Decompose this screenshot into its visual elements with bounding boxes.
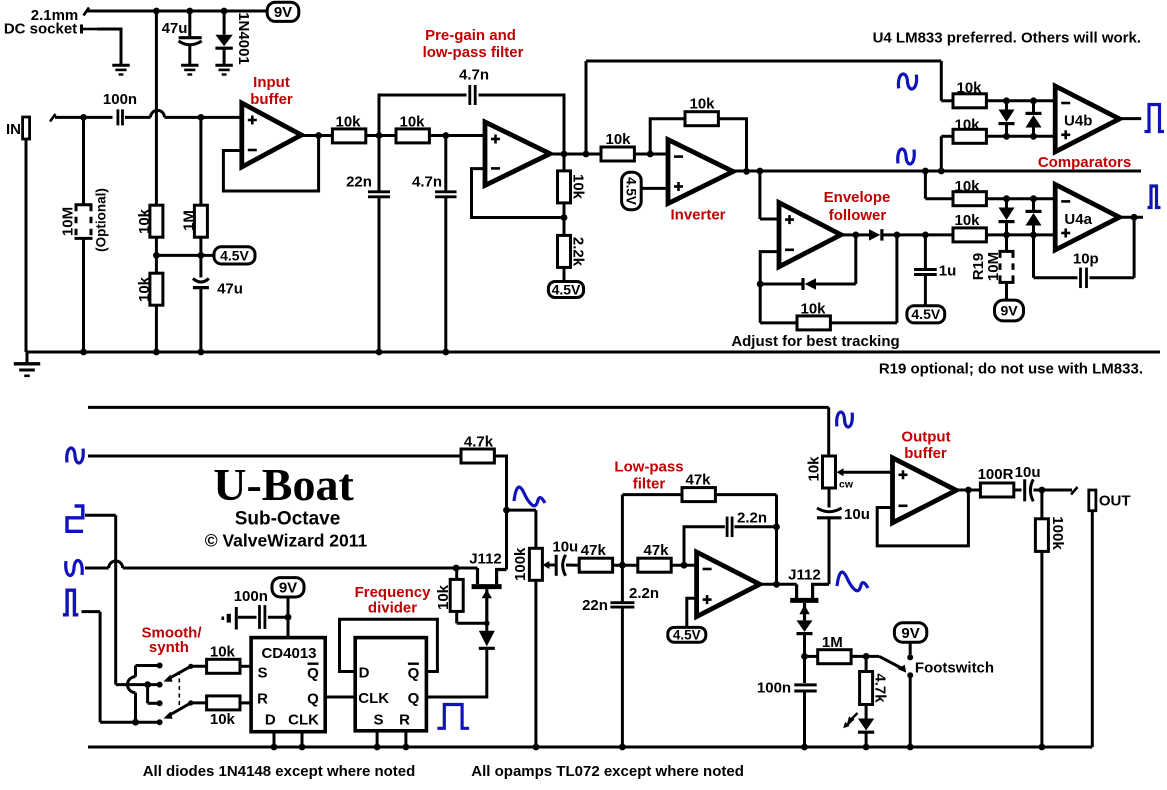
resistor 10k (U4a non-inverting input) [953,228,986,242]
diode (envelope feedback) [760,283,803,286]
feedback network wire (pre-gain) [472,169,565,218]
IC CD4013 (flip-flop 1) [251,638,325,732]
svg-text:CD4013: CD4013 [261,645,316,662]
distorted sine symbol (sub-octave) [514,487,545,506]
svg-text:10k: 10k [800,300,826,317]
CD4013-1 ground legs [273,732,276,747]
svg-text:cw: cw [839,478,854,490]
switch Smooth/synth (lower pole) [157,700,163,706]
svg-text:filter: filter [633,475,666,492]
sine symbol (comparator lower input) [898,149,915,164]
bias label 4.5V (inverter) [622,172,642,209]
wire output [956,489,980,492]
wire pulse to upper switch throw (with hop) [136,664,160,667]
resistor 1M (gate bleed) [805,655,818,658]
op-amp U5a low-pass filter [697,552,760,617]
svg-text:Q: Q [307,691,319,708]
svg-text:R: R [257,691,268,708]
capacitor 4.7n (shunt) [444,136,447,193]
9V supply rail [86,10,268,13]
capacitor 100n (mute) [794,683,816,686]
svg-text:OUT: OUT [1099,492,1131,509]
clamp diode pair (U4a) [1005,199,1008,209]
resistor 10M optional (dashed) [82,117,85,204]
svg-text:100n: 100n [234,588,268,605]
svg-text:follower: follower [829,207,887,224]
op-amp U4a comparator [1055,184,1119,250]
svg-text:R19 optional; do not use with: R19 optional; do not use with LM833. [879,360,1143,377]
resistor 10k (R input) [191,701,207,704]
sine rail (waveform 3) [66,561,83,576]
svg-text:S: S [373,712,383,729]
svg-text:10k: 10k [569,174,586,200]
svg-text:low-pass filter: low-pass filter [423,44,524,61]
svg-text:10k: 10k [136,208,153,234]
capacitor 47u (bias) [199,255,202,277]
svg-text:10k: 10k [954,178,980,195]
svg-text:47u: 47u [217,280,243,297]
wire square signal to switch [116,683,160,686]
op-amp U4b comparator [1055,86,1119,152]
svg-text:Envelope: Envelope [824,189,891,206]
svg-text:10k: 10k [335,113,361,130]
svg-text:4.7k: 4.7k [464,433,494,450]
svg-text:4.5V: 4.5V [220,247,249,263]
svg-text:© ValveWizard 2011: © ValveWizard 2011 [205,531,368,551]
LED indicator [865,705,868,719]
svg-text:100k: 100k [512,547,529,581]
svg-text:1u: 1u [939,262,957,279]
svg-text:Output: Output [901,428,950,445]
footswitch [879,656,904,669]
bias label 4.5V (divider) [214,247,255,264]
svg-text:J112: J112 [469,550,502,567]
svg-text:DC socket: DC socket [4,20,77,37]
svg-text:9V: 9V [279,580,297,597]
svg-text:47k: 47k [581,542,607,559]
svg-text:Q: Q [408,665,420,682]
wire hop over supply line [151,110,165,117]
wire inverter output rail [733,170,1141,173]
svg-text:4.5V: 4.5V [911,306,940,322]
svg-text:1M: 1M [822,634,843,651]
svg-text:All opamps TL072 except where: All opamps TL072 except where noted [471,763,744,780]
op-amp U2a inverter [668,140,733,204]
svg-text:2.2n: 2.2n [737,509,767,526]
resistor 47k (LPF 2) [638,558,671,572]
svg-text:Adjust for best tracking: Adjust for best tracking [731,333,899,350]
resistor 4.7k (LED) [865,656,868,671]
svg-text:R: R [399,712,410,729]
svg-text:Input: Input [253,74,290,91]
CD4013-2 ground legs [376,731,379,747]
resistor 10k (inverter input) [601,147,634,161]
svg-text:Sub-Octave: Sub-Octave [235,509,341,530]
svg-text:Q: Q [307,665,319,682]
resistor 1M (bias feed) [199,117,202,205]
svg-text:U-Boat: U-Boat [213,459,354,510]
svg-text:Q: Q [408,690,420,707]
svg-text:4.7n: 4.7n [459,66,489,83]
diode (envelope output) [841,233,869,236]
svg-text:10k: 10k [954,212,980,229]
svg-text:10k: 10k [210,711,236,728]
wire DC socket to ground [97,29,121,65]
capacitor 10u (blend wiper) [555,555,558,576]
svg-text:100k: 100k [1049,516,1066,550]
svg-text:9V: 9V [901,625,919,642]
resistor 100R (output) [980,483,1013,497]
square signal drop wire [85,514,116,517]
junction dots on 9V rail [153,8,160,15]
svg-text:4.7k: 4.7k [871,673,888,703]
svg-text:IN: IN [6,121,21,138]
supply divider wire [155,11,158,205]
distorted sine symbol (J112 out) [837,572,868,591]
svg-text:U4 LM833 preferred. Others wil: U4 LM833 preferred. Others will work. [873,29,1141,46]
svg-text:47k: 47k [685,471,711,488]
svg-text:Inverter: Inverter [670,206,725,223]
svg-text:22n: 22n [346,173,372,190]
ground (100n sideways) [235,607,238,630]
svg-text:100R: 100R [978,466,1014,483]
square symbol (waveform 2) [67,506,83,531]
capacitor 47u (supply) [188,11,191,36]
wire LPF output [760,583,797,586]
op-amp U1b pre-gain [485,122,550,185]
sine rail to 4.7k [88,455,461,458]
pulse symbol (waveform 4) [63,590,79,615]
power label 9V (CD4013) [272,578,304,597]
sine symbol (pot top) [837,412,853,427]
svg-text:buffer: buffer [904,445,947,462]
svg-text:D: D [359,664,370,681]
capacitor 10p (U4a feedback) [1032,235,1035,278]
DC socket pin [80,25,83,34]
wire CD1 Q to CD2 CLK [325,696,355,699]
svg-text:47u: 47u [162,20,188,37]
resistor 10k (U4b non-inverting input) [940,136,943,171]
resistor 47k (LPF 1) [579,558,612,572]
OUT jack [1071,487,1078,495]
capacitor 10u (output) [1023,479,1026,501]
capacitor 22n / 2.2n (LPF shunt) [621,495,624,602]
ground (47u) [181,64,198,67]
wire U4b output [1119,117,1141,120]
resistor 10k (gain) [563,154,566,171]
op-amp U1a input buffer [242,103,302,167]
svg-text:Low-pass: Low-pass [614,458,683,475]
power label 9V (footswitch) [894,623,926,642]
potentiometer 100k (blend) [529,548,542,580]
feedback wire (envelope) [760,252,779,323]
feedback wire (output buffer) [877,490,968,546]
input wire with tick [50,114,56,122]
svg-text:4.5V: 4.5V [552,281,581,297]
wire pre-gain output [550,153,601,156]
svg-text:U4b: U4b [1064,113,1092,130]
op-amp U5b output buffer [893,458,957,523]
svg-text:10u: 10u [1015,464,1041,481]
wire square to lower switch throw [146,685,149,704]
svg-text:10k: 10k [399,113,425,130]
diode (gate clamp) [479,647,495,650]
svg-text:10M: 10M [59,207,76,236]
ground (1N4001) [215,64,232,67]
square wave symbol (U4b out) [1145,105,1165,132]
svg-text:100n: 100n [757,679,791,696]
svg-text:Pre-gain and: Pre-gain and [425,27,516,44]
svg-text:buffer: buffer [250,91,293,108]
wire to 100k blend pot [507,509,536,512]
capacitor 2.2n (LPF feedback) [684,527,725,565]
svg-text:10M: 10M [985,252,1002,281]
svg-text:10k: 10k [210,643,236,660]
resistor 10k (J112 gate) [457,622,487,625]
capacitor 100n (input) [117,109,120,125]
svg-text:synth: synth [149,639,189,656]
capacitor 10u (pot to JFET) [828,488,831,508]
svg-text:CLK: CLK [288,711,319,728]
power label 9V (top) [267,2,299,21]
feedback wire (input buffer) [223,136,318,192]
svg-text:S: S [257,664,267,681]
diode 1N4001 (supply clamp) [223,11,226,35]
sine symbol (comparator upper input) [898,74,916,89]
svg-text:1N4001: 1N4001 [235,12,252,65]
resistor 2.2k (gain) [558,235,571,267]
svg-text:22n: 22n [582,597,608,614]
svg-text:Footswitch: Footswitch [915,659,994,676]
ground rail (bottom section) [88,746,1092,749]
clamp diode pair (U4b) [1005,101,1008,111]
resistor 10k (U4a inverting input) [924,171,927,199]
bias label 4.5V (envelope cap) [907,306,945,323]
resistor 10k (series 1) [332,129,365,143]
resistor 10k (U4b inverting input) [940,61,943,101]
svg-text:4.5V: 4.5V [673,628,701,643]
svg-text:Comparators: Comparators [1038,154,1131,171]
capacitor 4.7n (feedback top) [379,95,467,136]
pulse symbol (U4a out) [1148,186,1161,208]
svg-text:2.2n: 2.2n [629,585,659,602]
svg-text:9V: 9V [274,4,292,21]
svg-text:2.2k: 2.2k [569,237,586,267]
svg-text:J112: J112 [788,567,821,584]
diode (mute gate) [797,620,813,632]
svg-text:10k: 10k [954,116,980,133]
resistor 100k (output load) [1040,490,1043,519]
wire op-amp out [301,134,332,137]
ground rail (top section) [26,351,1160,354]
svg-text:10u: 10u [552,538,578,555]
svg-text:Frequency: Frequency [355,584,432,601]
feedback loop CD2 Qbar to D [340,619,438,671]
svg-text:10k: 10k [435,584,452,610]
power label 9V (R19) [995,300,1024,321]
svg-text:100n: 100n [103,91,137,108]
svg-text:1M: 1M [180,210,197,231]
svg-text:4.7n: 4.7n [412,173,442,190]
wire to comparator rail [585,61,588,154]
svg-text:10k: 10k [956,80,982,97]
wire CD2 Q output [426,650,486,697]
ground (DC socket) [112,64,129,67]
svg-text:4.5V: 4.5V [624,177,639,205]
pulse signal wire [82,610,101,613]
bias label 4.5V (LPF) [687,598,697,627]
capacitor 22n (shunt) [378,136,381,193]
svg-text:10u: 10u [844,506,870,523]
svg-text:47k: 47k [643,542,669,559]
resistor 10k (series 2) [396,129,429,143]
svg-text:10k: 10k [689,95,715,112]
svg-text:10k: 10k [136,276,153,302]
gang link (dashed) [178,671,180,709]
svg-text:All diodes 1N4148 except where: All diodes 1N4148 except where noted [143,763,416,780]
sine symbol (rail 2 input) [67,448,84,463]
resistor R19 10M (dashed) [1005,235,1008,252]
svg-text:10p: 10p [1073,250,1099,267]
resistor 10k (divider upper) [150,205,163,237]
resistor 4.7k (mix) [461,449,494,463]
capacitor 1u (envelope) [924,235,927,270]
svg-text:(Optional): (Optional) [94,188,109,252]
resistor 47k (LPF outer feedback) [622,493,682,496]
svg-text:10k: 10k [805,456,822,482]
ground symbol (main) [26,352,29,363]
resistor 10k (S input) [191,665,207,668]
svg-text:CLK: CLK [358,690,389,707]
wire IN jack to ground rail [25,139,28,352]
wire U4a output [1119,216,1143,219]
svg-text:9V: 9V [1000,302,1018,318]
svg-text:D: D [265,711,276,728]
svg-text:U4a: U4a [1064,211,1092,228]
resistor 10k (inverter feedback) [650,119,685,154]
svg-text:10k: 10k [605,131,631,148]
square symbol (divided output) [437,705,469,729]
svg-text:divider: divider [368,600,417,617]
bias label 4.5V (gain network) [548,282,583,298]
potentiometer 10k (output level) [823,456,836,488]
resistor 10k (divider lower) [150,273,163,305]
resistor 10k adjust (envelope) [760,321,797,324]
IC CD4013 (flip-flop 2) [355,638,426,731]
node 4.5V tap [153,252,160,259]
switch Smooth/synth (upper pole) [157,663,163,669]
envelope rail (bottom) [88,406,829,409]
op-amp U3a envelope follower [758,171,761,219]
capacitor 100n (CD4013 supply) [238,616,257,619]
